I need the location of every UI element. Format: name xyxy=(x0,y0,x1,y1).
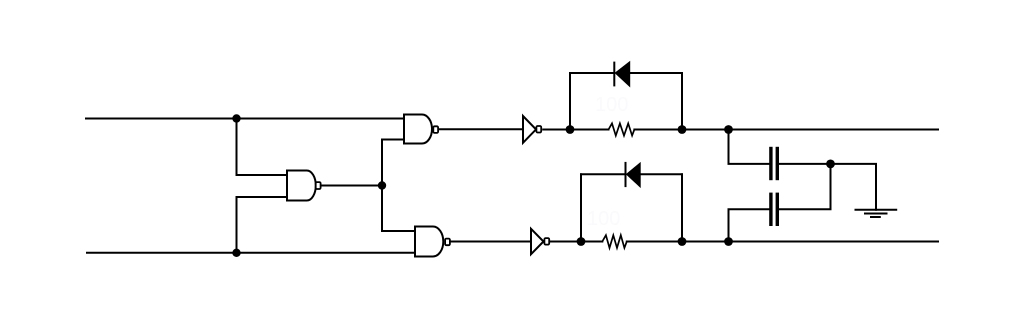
wire: mid node to ground drop xyxy=(831,164,877,210)
wire: U5 output to node xyxy=(550,241,581,243)
wire: D1 branch top left segment xyxy=(570,72,614,74)
wire: right riser of D1 branch xyxy=(681,73,683,130)
capacitor C2 left plate xyxy=(769,193,772,226)
wire: bottom rail to right edge xyxy=(682,241,938,243)
capacitor C1 right plate xyxy=(776,147,779,180)
wire: U2 output to inverter U4 xyxy=(439,128,523,130)
capacitor C1 left plate xyxy=(769,147,772,180)
wire: node to R2 xyxy=(581,241,602,243)
wire: left riser of D2 branch xyxy=(580,174,582,241)
diode D2 cathode bar xyxy=(625,163,627,186)
wire: bottom rail up to U1 input B xyxy=(237,197,288,253)
wire: top rail down to U1 input A xyxy=(237,119,288,176)
wire: node to R1 xyxy=(570,129,609,131)
resistor R1 xyxy=(609,123,635,135)
wire: top node down and into C1 xyxy=(729,130,770,164)
junction node on bottom rail xyxy=(232,249,240,257)
inverter U4 (top buffer) xyxy=(523,116,541,143)
diode D1 cathode bar xyxy=(613,63,615,86)
junction node feeding C1 xyxy=(724,125,733,134)
wire: D2 branch top left segment xyxy=(581,173,626,175)
wire: R1 to right node xyxy=(634,129,682,131)
junction node right of R2 xyxy=(678,237,687,246)
capacitor C2 right plate xyxy=(776,193,779,226)
wire: left riser of D1 branch xyxy=(569,73,571,130)
wire: D1 branch top right segment xyxy=(629,72,682,74)
inverter U5 (bottom buffer) xyxy=(531,229,549,254)
wire: C1 to mid node xyxy=(779,163,831,165)
wire: top input rail xyxy=(86,118,404,120)
wire: mid node down and into C2 right side xyxy=(779,164,831,209)
wire: right riser of D2 branch xyxy=(681,174,683,241)
wire: U4 output to node xyxy=(543,129,570,131)
ground symbol xyxy=(856,210,897,217)
nand gate U3 (bottom) xyxy=(415,227,450,257)
wire: bottom input rail xyxy=(87,252,415,254)
nand gate U2 (top) xyxy=(404,115,438,144)
wire: R2 to right node xyxy=(627,241,682,243)
diode D1 triangle xyxy=(616,63,629,85)
junction node feeding C2 xyxy=(724,237,733,246)
wire: node down to U3 input A xyxy=(382,186,415,232)
svg-text:100: 100 xyxy=(587,208,620,230)
wire: C2 left side down to bottom node xyxy=(729,209,770,241)
junction node left of R1 xyxy=(566,125,575,134)
junction node on top rail xyxy=(232,114,240,122)
junction node left of R2 xyxy=(577,237,586,246)
junction node between capacitors and ground xyxy=(826,160,835,169)
nand gate U1 (middle) xyxy=(287,171,321,201)
resistor R2 xyxy=(602,235,627,248)
junction node at U1 output xyxy=(378,181,386,189)
svg-text:100: 100 xyxy=(595,94,628,116)
wire: top rail to right edge xyxy=(682,129,938,131)
wire: D2 branch top right segment xyxy=(640,173,682,175)
junction node right of R1 xyxy=(678,125,687,134)
wire: U1 output to node xyxy=(322,185,382,187)
diode D2 triangle xyxy=(627,164,639,186)
wire: node up to U2 input B xyxy=(382,140,404,186)
wire: U3 output to inverter U5 xyxy=(450,241,531,243)
